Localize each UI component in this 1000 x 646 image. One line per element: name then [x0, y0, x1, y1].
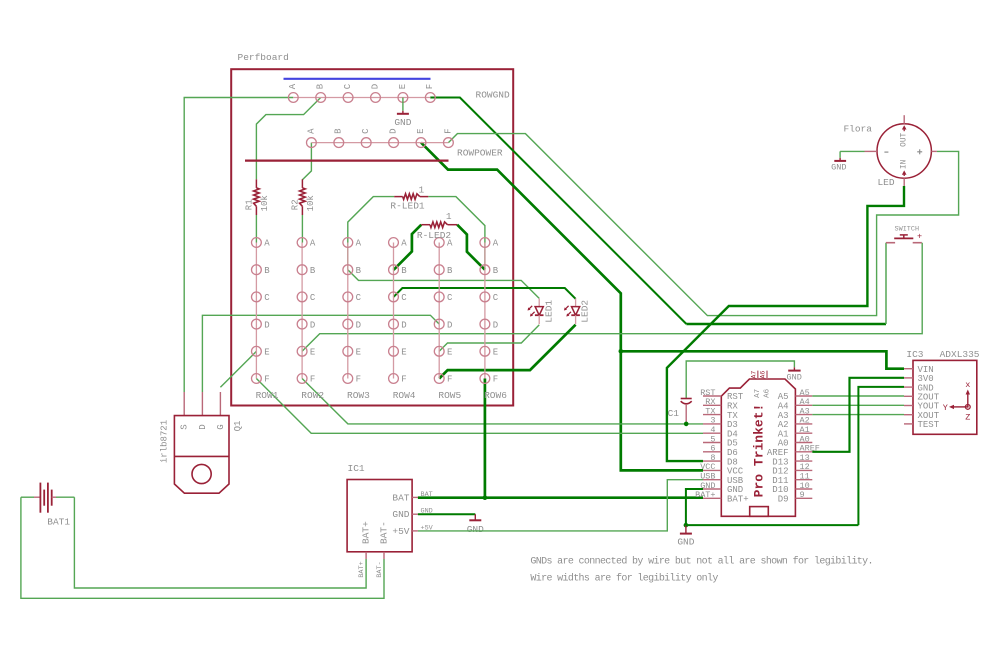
- svg-text:A7: A7: [754, 389, 762, 398]
- svg-text:S: S: [180, 424, 190, 429]
- svg-text:B: B: [264, 266, 270, 276]
- svg-text:GND: GND: [831, 162, 846, 172]
- svg-text:ROW5: ROW5: [438, 390, 461, 401]
- svg-text:C: C: [310, 293, 316, 303]
- svg-text:E: E: [493, 348, 498, 358]
- svg-text:OUT: OUT: [901, 132, 909, 146]
- svg-text:D9: D9: [778, 495, 789, 505]
- svg-text:G: G: [216, 424, 226, 429]
- svg-text:ROW1: ROW1: [256, 390, 279, 401]
- svg-text:BAT-: BAT-: [376, 561, 384, 577]
- svg-text:ROWGND: ROWGND: [476, 89, 511, 100]
- svg-text:F: F: [447, 375, 452, 385]
- svg-text:Pro Trinket!: Pro Trinket!: [751, 404, 766, 498]
- svg-text:R1: R1: [244, 199, 254, 210]
- svg-text:F: F: [425, 84, 435, 89]
- svg-text:A: A: [310, 239, 316, 249]
- svg-text:B: B: [316, 83, 326, 89]
- svg-text:9: 9: [800, 490, 805, 500]
- svg-text:A: A: [493, 239, 499, 249]
- svg-text:E: E: [401, 348, 406, 358]
- svg-text:B: B: [334, 128, 344, 134]
- svg-text:A: A: [306, 128, 316, 134]
- svg-text:Z: Z: [965, 413, 970, 423]
- svg-text:E: E: [416, 128, 426, 133]
- svg-text:GND: GND: [392, 509, 409, 520]
- svg-text:F: F: [401, 375, 406, 385]
- svg-text:A: A: [288, 83, 298, 89]
- svg-text:ROW3: ROW3: [347, 390, 370, 401]
- svg-text:B: B: [447, 266, 453, 276]
- svg-text:ROWPOWER: ROWPOWER: [457, 148, 503, 159]
- svg-text:E: E: [310, 348, 315, 358]
- svg-text:x: x: [965, 380, 970, 390]
- svg-text:B: B: [401, 266, 407, 276]
- svg-text:ADXL335: ADXL335: [940, 349, 980, 360]
- svg-text:R-LED1: R-LED1: [390, 201, 425, 212]
- svg-text:LED2: LED2: [580, 300, 591, 323]
- svg-text:GND: GND: [677, 537, 694, 548]
- svg-text:GNDs are connected by wire but: GNDs are connected by wire but not all a…: [530, 555, 872, 567]
- svg-text:+: +: [917, 232, 922, 242]
- svg-text:D: D: [356, 320, 361, 330]
- svg-text:C1: C1: [668, 408, 680, 419]
- svg-text:10k: 10k: [306, 195, 316, 211]
- svg-text:irlb8721: irlb8721: [159, 420, 169, 463]
- svg-text:Flora: Flora: [843, 124, 872, 135]
- svg-text:C: C: [356, 293, 362, 303]
- svg-text:IC1: IC1: [348, 463, 365, 474]
- svg-text:C: C: [343, 83, 353, 89]
- svg-text:A: A: [401, 239, 407, 249]
- svg-text:BAT1: BAT1: [47, 516, 70, 527]
- svg-text:LED1: LED1: [543, 300, 554, 323]
- svg-text:TEST: TEST: [918, 420, 940, 430]
- svg-text:BAT+: BAT+: [358, 561, 366, 577]
- svg-text:Perfboard: Perfboard: [238, 52, 289, 63]
- svg-text:SWITCH: SWITCH: [895, 225, 919, 233]
- svg-text:A7: A7: [750, 371, 757, 379]
- svg-text:A6: A6: [760, 371, 767, 379]
- svg-text:BAT+: BAT+: [361, 521, 372, 544]
- svg-text:IC3: IC3: [906, 349, 923, 360]
- svg-text:GND: GND: [467, 524, 484, 535]
- svg-text:+5V: +5V: [392, 526, 409, 537]
- svg-text:A: A: [356, 239, 362, 249]
- svg-text:D: D: [447, 320, 452, 330]
- svg-text:BAT+: BAT+: [695, 490, 715, 500]
- svg-text:R2: R2: [290, 199, 300, 210]
- svg-text:1: 1: [418, 185, 424, 196]
- svg-text:A6: A6: [764, 388, 772, 398]
- svg-text:D: D: [264, 320, 269, 330]
- svg-text:D: D: [493, 320, 498, 330]
- svg-text:B: B: [356, 266, 362, 276]
- svg-text:R-LED2: R-LED2: [417, 230, 452, 241]
- svg-text:A: A: [264, 239, 270, 249]
- svg-text:C: C: [361, 128, 371, 134]
- svg-text:1: 1: [446, 211, 452, 222]
- svg-text:D: D: [198, 424, 208, 429]
- svg-text:E: E: [398, 84, 408, 89]
- svg-text:E: E: [356, 348, 361, 358]
- svg-text:D: D: [370, 84, 380, 89]
- svg-text:Y: Y: [943, 403, 948, 413]
- svg-text:C: C: [447, 293, 453, 303]
- svg-text:D: D: [310, 320, 315, 330]
- svg-text:IN: IN: [901, 159, 909, 169]
- svg-text:F: F: [264, 375, 269, 385]
- svg-text:C: C: [401, 293, 407, 303]
- svg-text:ROW6: ROW6: [484, 390, 507, 401]
- svg-text:GND: GND: [394, 117, 411, 128]
- svg-text:Wire widths are for legibility: Wire widths are for legibility only: [530, 572, 718, 584]
- svg-text:E: E: [264, 348, 269, 358]
- svg-text:B: B: [310, 266, 316, 276]
- svg-text:B: B: [493, 266, 499, 276]
- svg-text:GND: GND: [787, 372, 802, 382]
- svg-text:BAT+: BAT+: [727, 495, 749, 505]
- svg-text:E: E: [447, 348, 452, 358]
- svg-text:ROW2: ROW2: [301, 390, 324, 401]
- svg-text:F: F: [356, 375, 361, 385]
- svg-text:ROW4: ROW4: [393, 390, 416, 401]
- svg-text:BAT-: BAT-: [379, 521, 390, 544]
- svg-text:LED: LED: [877, 177, 894, 188]
- svg-text:BAT: BAT: [392, 492, 409, 503]
- svg-text:C: C: [493, 293, 499, 303]
- svg-text:D: D: [401, 320, 406, 330]
- svg-text:10k: 10k: [260, 195, 270, 211]
- svg-text:C: C: [264, 293, 270, 303]
- svg-text:D: D: [388, 128, 398, 133]
- svg-text:Q1: Q1: [233, 421, 243, 432]
- svg-text:F: F: [493, 375, 498, 385]
- svg-text:F: F: [310, 375, 315, 385]
- svg-text:F: F: [443, 128, 453, 133]
